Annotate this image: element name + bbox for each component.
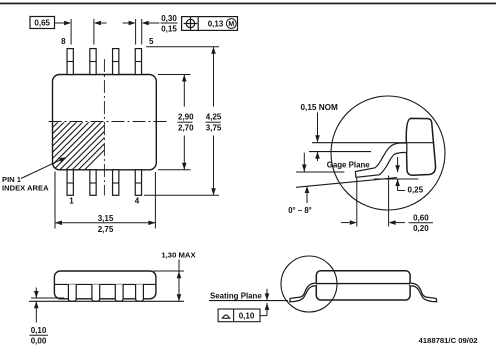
- horizontal centerline: [49, 121, 169, 123]
- dimension 0,30/0,15 lead width: [123, 19, 178, 45]
- body end (detail): [406, 118, 435, 175]
- detail balloon circle (end view): [281, 256, 337, 312]
- pin 1 leader: [21, 159, 63, 179]
- svg-text:2,90: 2,90: [178, 113, 194, 122]
- svg-text:1: 1: [69, 197, 74, 206]
- vertical centerline: [103, 59, 105, 196]
- svg-text:0,13: 0,13: [208, 19, 224, 28]
- svg-text:0,10: 0,10: [239, 311, 255, 320]
- arrow to angled line: [306, 187, 308, 204]
- pin 1 index area hatch: [40, 110, 144, 177]
- svg-text:4188781/C 09/02: 4188781/C 09/02: [419, 336, 478, 345]
- lower gage plane line: [309, 151, 371, 153]
- seating plane line (side view): [29, 300, 184, 302]
- svg-text:Seating Plane: Seating Plane: [210, 291, 262, 300]
- seating plane arrows: [266, 289, 268, 301]
- upper gage reference / parting line: [312, 142, 434, 144]
- lead shoulder ticks bottom row: [67, 182, 73, 184]
- svg-text:0,15: 0,15: [161, 25, 177, 34]
- dimension 4,25 / 3,75 overall: [144, 47, 219, 195]
- svg-text:0,25: 0,25: [408, 186, 424, 195]
- svg-text:2,75: 2,75: [98, 225, 114, 234]
- svg-text:2,70: 2,70: [178, 123, 194, 132]
- svg-text:8: 8: [61, 37, 66, 46]
- dimension 2,90 / 2,70 body: [158, 75, 191, 170]
- svg-text:Gage Plane: Gage Plane: [327, 161, 371, 170]
- svg-text:0,10: 0,10: [31, 326, 47, 335]
- lead shoulder ticks top row: [67, 62, 142, 184]
- position symbol: [184, 17, 198, 30]
- package body (top view): [53, 75, 157, 170]
- svg-text:0,20: 0,20: [413, 224, 429, 233]
- body (side view): [54, 271, 155, 299]
- 0-8 degree angled line: [296, 178, 397, 188]
- svg-text:0,60: 0,60: [413, 214, 429, 223]
- body (end view): [316, 271, 410, 300]
- dimension 0,65 pitch: [30, 17, 107, 45]
- seating plane line (end view): [209, 300, 288, 302]
- pin 8 (top row leftmost): [67, 49, 142, 196]
- svg-text:4,25: 4,25: [206, 113, 222, 122]
- svg-text:4: 4: [135, 197, 140, 206]
- arrow to seating reference: [303, 153, 305, 172]
- body bottom extension (left): [31, 297, 64, 299]
- pin 5: [135, 49, 141, 75]
- dimension 0,10/0,00 standoff: [35, 288, 37, 299]
- svg-text:0,65: 0,65: [34, 19, 50, 28]
- svg-text:5: 5: [149, 37, 154, 46]
- pin 1 (bottom row leftmost): [67, 170, 73, 196]
- seating reference line (detail): [296, 171, 344, 173]
- svg-text:3,15: 3,15: [98, 214, 114, 223]
- svg-text:1,30 MAX: 1,30 MAX: [161, 251, 196, 260]
- pin 6: [113, 49, 119, 75]
- svg-text:0° – 8°: 0° – 8°: [288, 206, 312, 215]
- 0,60/0,20 dimension: [356, 178, 358, 227]
- svg-text:3,75: 3,75: [206, 123, 222, 132]
- dimension 3,15 / 2,75: [55, 172, 155, 229]
- svg-text:0,00: 0,00: [31, 336, 47, 345]
- svg-text:0,15 NOM: 0,15 NOM: [301, 103, 338, 112]
- top border rule: [0, 3, 496, 5]
- parting line (end view): [316, 283, 410, 285]
- svg-text:INDEX AREA: INDEX AREA: [2, 183, 49, 192]
- pin 4: [135, 170, 141, 196]
- left gull-wing lead: [290, 283, 317, 302]
- pin 7: [90, 49, 96, 75]
- svg-text:0,30: 0,30: [161, 14, 177, 23]
- parting line: [54, 283, 155, 285]
- svg-text:M: M: [228, 21, 234, 28]
- pin 3: [113, 170, 119, 196]
- side leads: [68, 284, 143, 301]
- seating plane tolerance box: [218, 309, 260, 322]
- right gull-wing lead: [410, 283, 437, 302]
- detail circle: [331, 96, 445, 210]
- 0,25 dimension: [397, 157, 399, 172]
- lead (detail): [355, 143, 406, 177]
- feature control frame (position tolerance): [182, 17, 238, 31]
- M modifier circle: [226, 19, 236, 29]
- pin 2: [90, 170, 96, 196]
